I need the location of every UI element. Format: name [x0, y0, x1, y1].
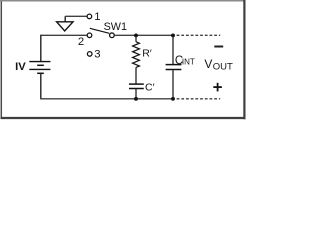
switch pole contact — [110, 33, 115, 38]
node junction bottom R'/C' — [134, 97, 138, 101]
wire (C' to bottom rail) — [135, 89, 137, 99]
svg-text:1: 1 — [94, 11, 100, 23]
border frame left — [0, 0, 2, 119]
minus sign (VOUT polarity) — [214, 46, 223, 48]
wire (battery - down to bottom rail) — [40, 73, 42, 99]
wire (bottom rail) — [40, 98, 173, 100]
capacitor C-INT bottom plate — [166, 69, 182, 71]
battery short plate 2 — [37, 72, 44, 74]
wire (top rail from pole to C-INT branch) — [115, 34, 173, 36]
svg-text:IV: IV — [15, 61, 26, 73]
triangle symbol (inverted open triangle) — [57, 22, 73, 31]
resistor R' — [133, 42, 140, 68]
capacitor C' top plate — [129, 83, 144, 85]
border frame right — [243, 0, 245, 119]
battery short plate 1 — [37, 64, 44, 66]
wire (top rail stub into resistor) — [135, 35, 137, 41]
svg-text:OUT: OUT — [213, 61, 233, 72]
node junction bottom C-INT — [171, 97, 175, 101]
border frame top — [0, 0, 246, 2]
svg-text:C′: C′ — [145, 81, 155, 93]
switch arm SW1 — [90, 28, 110, 33]
wire (resistor to capacitor C') — [135, 67, 137, 84]
svg-text:3: 3 — [94, 48, 100, 60]
capacitor C-INT top plate — [166, 64, 182, 66]
battery long plate 2 — [29, 68, 50, 70]
switch contact 1 — [87, 14, 92, 19]
wire (top dashed rail to output) — [177, 34, 221, 36]
wire (top rail stub into C-INT) — [172, 35, 174, 64]
svg-text:INT: INT — [182, 58, 195, 67]
switch contact 2 — [87, 33, 92, 38]
svg-text:R′: R′ — [142, 48, 152, 60]
svg-text:SW1: SW1 — [104, 21, 127, 33]
svg-text:2: 2 — [78, 36, 84, 48]
wire (bottom dashed rail to output) — [177, 98, 221, 100]
node junction top C-INT — [171, 33, 175, 37]
wire (C-INT to bottom rail) — [172, 70, 174, 99]
wire (left vertical from corner down to battery +) — [40, 35, 42, 62]
wire (stub down from wire to triangle top) — [64, 16, 66, 22]
node junction top R' — [134, 33, 138, 37]
svg-text:V: V — [204, 57, 212, 71]
switch contact 3 — [87, 52, 92, 57]
wire (left horizontal into contact 2) — [41, 34, 87, 36]
plus sign (VOUT polarity) — [213, 86, 222, 88]
battery long plate 1 — [29, 61, 50, 63]
capacitor C' bottom plate — [129, 88, 144, 90]
wire (triangle stub to switch position 1) — [65, 15, 87, 17]
border frame bottom — [1, 117, 246, 119]
